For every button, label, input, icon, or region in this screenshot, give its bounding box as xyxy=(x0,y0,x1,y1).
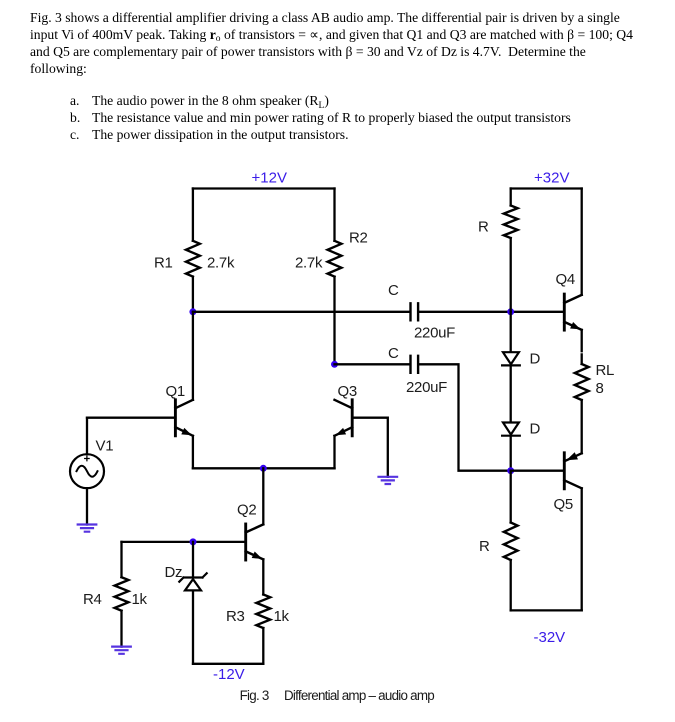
wire capacitor C2 down to node D xyxy=(419,364,510,470)
svg-text:1k: 1k xyxy=(132,591,148,608)
Q2 label xyxy=(237,502,256,519)
+12V label xyxy=(252,170,287,187)
R4 label xyxy=(83,591,102,608)
ground under R4 xyxy=(112,647,131,654)
svg-text:+32V: +32V xyxy=(534,170,569,187)
wire node C down to diode D1 xyxy=(510,312,512,351)
-12V label xyxy=(213,666,245,683)
svg-text:2.7k: 2.7k xyxy=(207,255,235,272)
R upper label xyxy=(478,219,489,236)
zener diode Dz xyxy=(179,573,206,590)
transistor Q4 xyxy=(564,294,581,330)
resistor R4 xyxy=(115,577,129,611)
svg-text:R1: R1 xyxy=(154,255,173,272)
wire R2 bottom to node B xyxy=(333,277,335,365)
resistor R1 xyxy=(186,241,200,277)
wire RL to Q5 emitter xyxy=(581,400,583,453)
R lower label xyxy=(479,538,490,555)
diode D2 xyxy=(502,423,520,436)
RL value 8 xyxy=(596,380,604,397)
-32V rail xyxy=(511,609,582,611)
svg-text:R3: R3 xyxy=(226,608,245,625)
Q1 label xyxy=(166,383,185,400)
svg-text:D: D xyxy=(530,421,541,438)
wire Q4 emitter to RL xyxy=(581,330,583,364)
transistor Q3 xyxy=(335,400,353,436)
wire zener bottom lead xyxy=(192,592,194,664)
resistor R2 xyxy=(328,241,342,277)
RL label xyxy=(596,362,615,379)
C1 label xyxy=(388,282,399,299)
resistor R3 xyxy=(256,595,270,629)
wire capacitor C1 to node C xyxy=(419,311,564,313)
svg-text:2.7k: 2.7k xyxy=(295,255,323,272)
R3 label xyxy=(226,608,245,625)
-12V rail xyxy=(193,663,263,665)
wire R upper bottom to node C xyxy=(510,238,512,312)
wire V1 bottom xyxy=(86,488,88,524)
C2 value 220uF xyxy=(406,379,447,396)
wire R1 bottom to node A xyxy=(192,277,194,312)
-32V label xyxy=(534,629,566,646)
svg-text:R4: R4 xyxy=(83,591,102,608)
wire node B to capacitor C2 xyxy=(335,363,410,365)
wire Q1 collector xyxy=(192,312,194,400)
V1 label xyxy=(96,438,114,455)
svg-text:Dz: Dz xyxy=(165,564,183,581)
wire zener top lead xyxy=(192,542,194,578)
wire V1 top xyxy=(86,418,88,455)
wire Q5 collector down xyxy=(581,488,583,610)
svg-text:8: 8 xyxy=(596,380,604,397)
svg-text:D: D xyxy=(530,351,541,368)
wire R3 bottom xyxy=(262,628,264,664)
capacitor C1 xyxy=(411,303,419,320)
wire Q5 base to node D xyxy=(511,470,565,472)
wire Q1 base from V1 xyxy=(87,417,175,419)
node C dot xyxy=(507,308,514,315)
wire Q1 emitter down xyxy=(192,436,194,469)
wire R2 top lead xyxy=(333,189,335,241)
emitter rail wire xyxy=(193,467,335,469)
svg-text:C: C xyxy=(388,345,399,362)
voltage source V1 xyxy=(70,454,104,488)
svg-text:220uF: 220uF xyxy=(406,379,447,396)
R2 label xyxy=(349,230,368,247)
wire Q2 base xyxy=(122,541,246,543)
svg-text:Q2: Q2 xyxy=(237,502,256,519)
R3 value 1k xyxy=(274,608,290,625)
Q5 label xyxy=(554,496,573,513)
node F dot xyxy=(190,538,197,545)
wire +32V right to Q4 collector xyxy=(581,189,583,295)
wire R1 top lead xyxy=(192,189,194,241)
Dz label xyxy=(165,564,183,581)
node D dot xyxy=(507,467,514,474)
wire Q2 emitter to R3 xyxy=(262,559,264,594)
svg-text:R: R xyxy=(479,538,490,555)
+32V rail xyxy=(511,187,582,189)
node E dot xyxy=(260,465,267,472)
capacitor C2 xyxy=(411,356,419,373)
svg-text:Q3: Q3 xyxy=(338,383,357,400)
svg-text:V1: V1 xyxy=(96,438,114,455)
wire R lower bottom xyxy=(510,560,512,610)
Q4 label xyxy=(556,271,575,288)
C2 label xyxy=(388,345,399,362)
D1 label xyxy=(530,351,541,368)
svg-text:C: C xyxy=(388,282,399,299)
wire R4 bottom xyxy=(120,611,122,647)
wire Q3 emitter down xyxy=(333,436,335,469)
wire node D to R lower xyxy=(510,471,512,523)
R1 label xyxy=(154,255,173,272)
resistor R upper xyxy=(504,206,518,239)
wire tail node to Q2 collector xyxy=(262,468,264,524)
svg-text:R: R xyxy=(478,219,489,236)
svg-text:Q1: Q1 xyxy=(166,383,185,400)
transistor Q5 xyxy=(564,452,581,489)
node A dot xyxy=(189,308,196,315)
svg-text:-32V: -32V xyxy=(534,629,566,646)
wire D2 to node D xyxy=(510,436,512,471)
svg-text:R2: R2 xyxy=(349,230,368,247)
svg-text:-12V: -12V xyxy=(213,666,245,683)
Q3 label xyxy=(338,383,357,400)
+12V rail xyxy=(193,187,335,189)
svg-text:+12V: +12V xyxy=(252,170,287,187)
resistor RL xyxy=(575,364,589,400)
svg-text:Q5: Q5 xyxy=(554,496,573,513)
wire R4 lead xyxy=(120,542,122,577)
wire R top lead xyxy=(510,189,512,206)
diode D1 xyxy=(502,352,520,365)
+32V label xyxy=(534,170,569,187)
svg-text:220uF: 220uF xyxy=(414,325,455,342)
wire Q3 base to ground xyxy=(352,418,388,477)
svg-text:RL: RL xyxy=(596,362,615,379)
svg-text:1k: 1k xyxy=(274,608,290,625)
ground under V1 xyxy=(78,525,97,532)
R2 value 2.7k xyxy=(295,255,323,272)
R1 value 2.7k xyxy=(207,255,235,272)
R4 value 1k xyxy=(132,591,148,608)
svg-text:Q4: Q4 xyxy=(556,271,575,288)
C1 value 220uF xyxy=(414,325,455,342)
ground under Q3 xyxy=(379,477,398,484)
wire node A to capacitor C1 xyxy=(193,311,409,313)
node B dot xyxy=(331,361,338,368)
resistor R lower xyxy=(504,523,518,561)
transistor Q2 xyxy=(246,524,264,560)
wire D1 to D2 xyxy=(510,365,512,421)
transistor Q1 xyxy=(175,400,193,436)
D2 label xyxy=(530,421,541,438)
